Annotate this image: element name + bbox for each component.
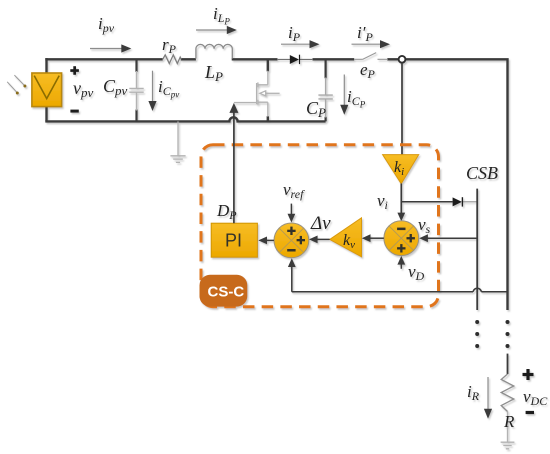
sign plus (PV) xyxy=(70,66,79,75)
sign minus (vDC) xyxy=(526,411,534,414)
wire: DC bus resumes to load xyxy=(507,354,509,374)
diode (into CSB line) xyxy=(453,197,478,206)
wire: main top bus left section xyxy=(45,58,507,310)
wire: PI output up to MOSFET gate with arrow xyxy=(229,103,238,223)
current arrow ipv xyxy=(90,44,131,52)
resistor R (load) xyxy=(501,374,514,412)
current arrow iCP xyxy=(340,75,348,115)
switch eP xyxy=(354,53,388,60)
wire: top bus switch to node xyxy=(387,58,398,60)
sign plus (S1 top) xyxy=(287,227,295,235)
MOSFET drain/source stubs (dark) xyxy=(267,59,269,121)
dashed CS-C boundary box xyxy=(201,145,439,307)
light rays into PV panel xyxy=(7,75,26,94)
ground (converter mid bus) xyxy=(170,121,185,162)
current arrow i'P xyxy=(352,40,391,48)
wire: vs input from CSB to summer S2 with arrow xyxy=(419,234,477,242)
sign plus (S2 bottom) xyxy=(397,244,405,252)
sign plus (vDC) xyxy=(523,369,534,380)
gain ki xyxy=(383,155,419,184)
wire: left vertical (PV) xyxy=(45,58,47,121)
inductor LP xyxy=(196,44,232,58)
svg-text:CSB: CSB xyxy=(466,163,498,183)
current arrow iLP xyxy=(196,26,237,34)
sign plus (S1 right) xyxy=(297,236,305,244)
svg-text:PI: PI xyxy=(225,231,242,251)
wire: kv output (delta-v) to summer S1 with arrow xyxy=(309,236,330,244)
capacitor CP body xyxy=(318,78,332,118)
wire: top bus node to right corner and right vertical drop xyxy=(406,58,508,310)
wire: bottom bus with hop over gate line xyxy=(45,117,325,121)
wire: S2 output to gain kv with arrow xyxy=(362,234,384,242)
svg-text:R: R xyxy=(503,412,515,431)
gain kv xyxy=(330,218,362,257)
node (output junction circle) xyxy=(399,56,406,63)
capacitor Cpv body xyxy=(129,71,143,111)
sign plus (S2 right) xyxy=(407,234,415,242)
wire: node down to ki gain xyxy=(401,63,403,155)
summer S2 (vs junction) xyxy=(384,221,419,256)
diode D (top bus) xyxy=(277,55,313,64)
sign minus (S1 bottom) xyxy=(287,249,295,252)
dots: CSB line continuation xyxy=(475,320,479,348)
current arrow iCpv xyxy=(148,71,156,111)
wire: vref input arrow into S1 top xyxy=(288,204,296,223)
wire: ki output down to summer S2 with arrow xyxy=(397,184,405,222)
svg-text:Δv: Δv xyxy=(310,213,331,234)
wire: feedback from DC bus up into S1 bottom xyxy=(288,258,508,292)
wire: CSB vertical line xyxy=(476,189,478,310)
MOSFET Q (body, light gray) xyxy=(234,71,280,117)
current arrow iR xyxy=(484,377,492,419)
controller PI xyxy=(211,223,257,257)
wire: S1 output to PI with arrow xyxy=(258,237,274,245)
wire: vD input arrow into S2 bottom xyxy=(397,256,405,269)
current arrow iP xyxy=(281,40,320,48)
wire: vi branch to CSB diode xyxy=(401,201,452,203)
capacitor CP stubs (dark) xyxy=(325,59,327,121)
PV panel xyxy=(32,73,62,107)
resistor rP xyxy=(163,55,182,64)
wire: top bus between inductor and diode xyxy=(232,58,278,60)
svg-text:CS-C: CS-C xyxy=(208,284,245,301)
capacitor Cpv stubs (dark) xyxy=(135,59,137,121)
ground (DC bus) xyxy=(501,442,515,449)
summer S1 (delta-v junction) xyxy=(274,223,309,258)
wire: load to ground xyxy=(507,412,509,442)
sign minus (PV) xyxy=(70,110,78,113)
sign minus (S2 top) xyxy=(397,228,405,231)
label CS-C tab xyxy=(200,275,248,307)
dots: DC bus continuation xyxy=(506,320,510,348)
wire: top bus between resistor and inductor xyxy=(181,58,196,60)
wire: top bus between diode and switch xyxy=(313,58,355,60)
